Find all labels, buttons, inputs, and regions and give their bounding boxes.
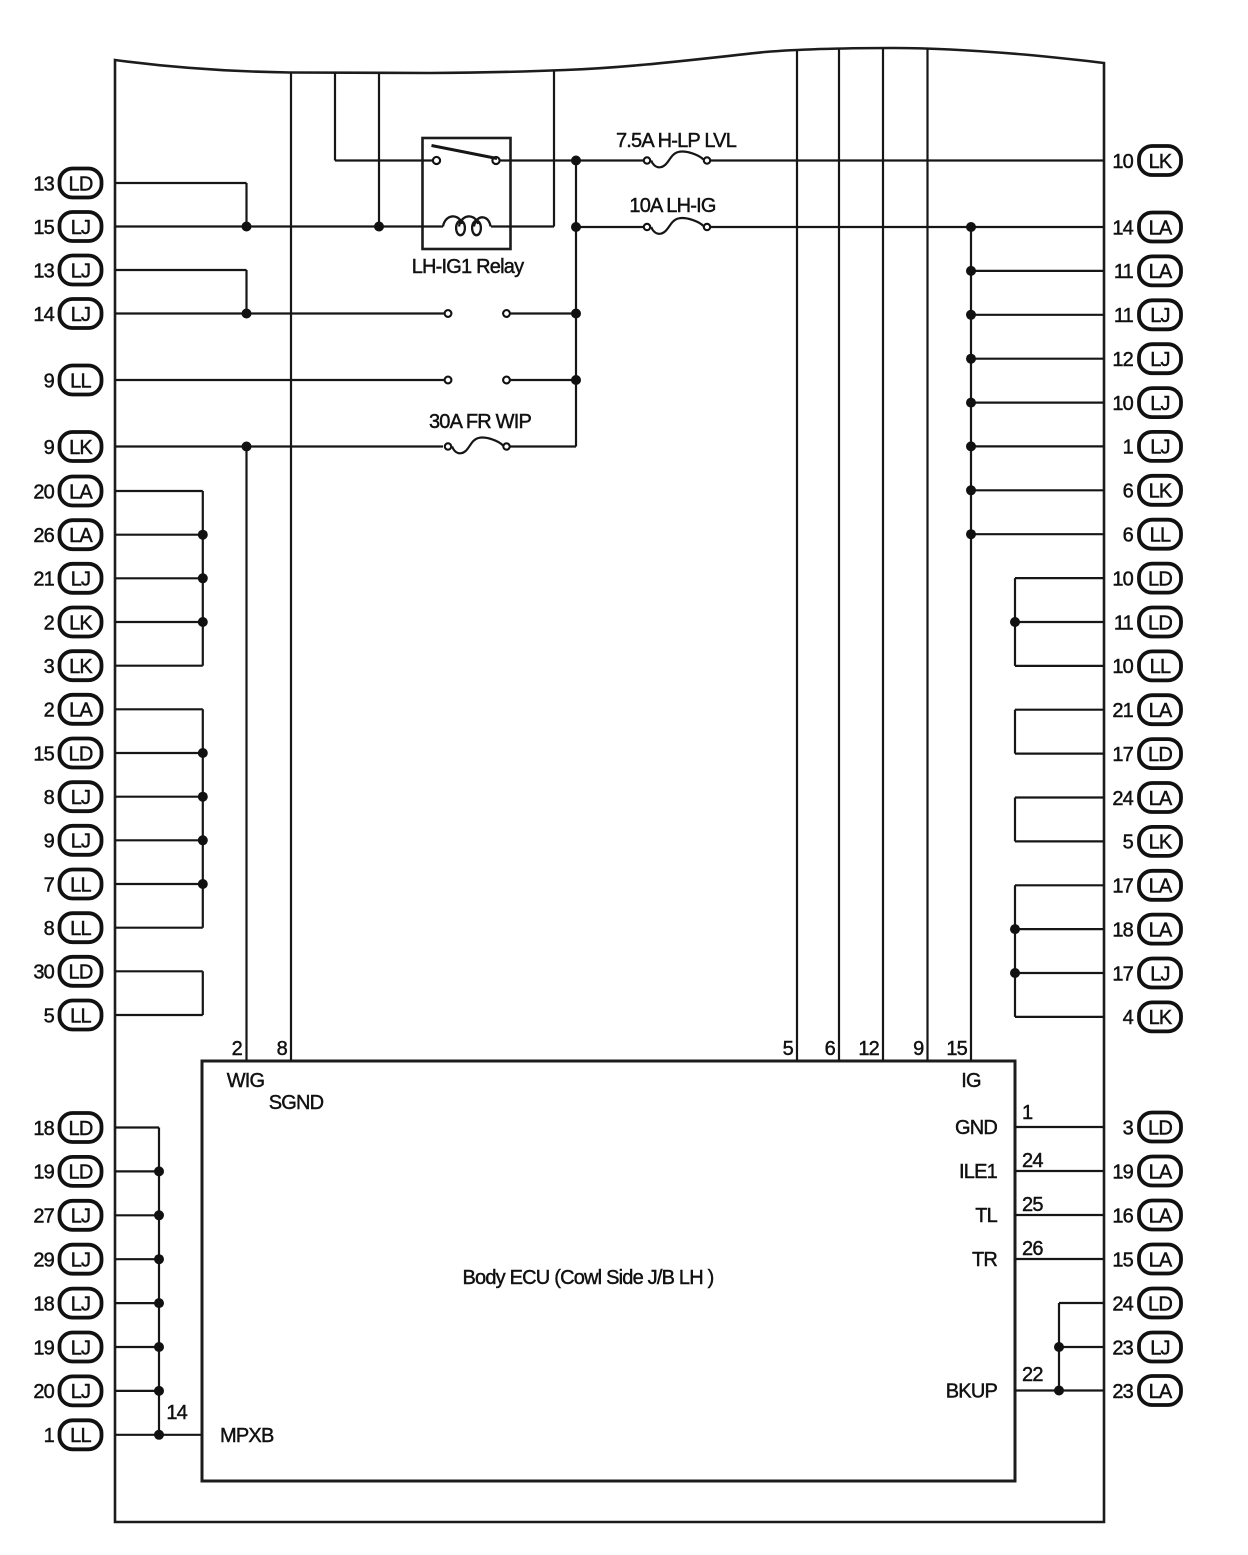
bus: left group B vertical: [202, 709, 204, 927]
svg-text:LA: LA: [1149, 700, 1173, 722]
svg-text:IG: IG: [961, 1070, 981, 1092]
svg-text:TR: TR: [972, 1249, 997, 1271]
connector 3 LD (right): [1123, 1113, 1181, 1142]
svg-text:27: 27: [33, 1206, 54, 1228]
connector 17 LJ (right): [1112, 959, 1181, 988]
svg-text:LH-IG1 Relay: LH-IG1 Relay: [412, 256, 524, 278]
wire: vertical to ECU pin 8: [290, 73, 292, 1062]
svg-text:22: 22: [1022, 1364, 1043, 1386]
connector 3 LK (left): [44, 651, 102, 680]
connector 19 LA (right): [1112, 1157, 1181, 1186]
svg-text:19: 19: [33, 1162, 54, 1184]
wire: ECU pin 1 GND to 3 LD: [1015, 1126, 1104, 1128]
connector 15 LJ (left): [33, 212, 101, 241]
wire: vertical to ECU pin 12: [882, 48, 884, 1061]
svg-text:LD: LD: [1148, 612, 1172, 634]
svg-text:6: 6: [1123, 525, 1134, 547]
svg-text:5: 5: [783, 1038, 794, 1060]
wire: switch rail y160: [335, 159, 432, 161]
wire: coil rail from 15 LJ: [115, 225, 443, 227]
svg-text:LA: LA: [1149, 1249, 1173, 1271]
wire: link 13 LD to 15 LJ: [245, 183, 247, 227]
connector 10 LD (right): [1112, 564, 1181, 593]
svg-text:LA: LA: [69, 525, 93, 547]
svg-text:8: 8: [44, 787, 55, 809]
connector 16 LA (right): [1112, 1201, 1181, 1230]
svg-text:GND: GND: [955, 1117, 997, 1139]
svg-text:LA: LA: [1149, 261, 1173, 283]
svg-text:LD: LD: [69, 1118, 93, 1140]
svg-text:LL: LL: [70, 370, 91, 392]
relay switch lever: [432, 146, 498, 159]
connector 18 LD (left): [33, 1113, 101, 1142]
wire: link 13 LJ to 14 LJ: [245, 270, 247, 314]
connector 24 LD (right): [1112, 1289, 1181, 1318]
svg-text:10: 10: [1112, 151, 1133, 173]
svg-text:17: 17: [1112, 963, 1133, 985]
svg-text:9: 9: [44, 831, 55, 853]
connector 19 LJ (left): [33, 1333, 101, 1362]
wire: 23 LJ row: [1059, 1346, 1104, 1348]
bus: right group G vertical: [1014, 885, 1016, 1017]
wire: ECU pin 24 ILE1 to 19 LA: [1015, 1170, 1104, 1172]
svg-text:1: 1: [44, 1425, 55, 1447]
connector 13 LJ (left): [33, 256, 101, 285]
svg-text:30A FR WIP: 30A FR WIP: [429, 411, 531, 433]
svg-text:LJ: LJ: [71, 304, 91, 326]
svg-text:25: 25: [1022, 1194, 1043, 1216]
svg-text:LD: LD: [69, 173, 93, 195]
svg-text:23: 23: [1112, 1381, 1133, 1403]
svg-text:LD: LD: [69, 1162, 93, 1184]
svg-text:24: 24: [1112, 788, 1133, 810]
bus: right group E vertical: [1014, 710, 1016, 754]
svg-text:LJ: LJ: [71, 569, 91, 591]
svg-text:1: 1: [1123, 437, 1134, 459]
wire: vertical feed to relay switch: [334, 73, 336, 161]
svg-text:10: 10: [1112, 393, 1133, 415]
connector 5 LL (left): [44, 1001, 102, 1030]
svg-text:LA: LA: [1149, 1161, 1173, 1183]
svg-text:4: 4: [1123, 1007, 1134, 1029]
svg-text:5: 5: [44, 1005, 55, 1027]
svg-text:LD: LD: [69, 743, 93, 765]
connector 11 LD (right): [1114, 608, 1181, 637]
svg-text:LA: LA: [69, 481, 93, 503]
svg-text:1: 1: [1022, 1102, 1033, 1124]
wire: vertical feed to coil rail node: [378, 73, 380, 227]
connector 18 LJ (left): [33, 1289, 101, 1318]
svg-text:LK: LK: [69, 612, 93, 634]
junction dots group G: [1010, 924, 1020, 934]
svg-text:20: 20: [33, 481, 54, 503]
bus: right group F vertical: [1014, 798, 1016, 842]
svg-text:7.5A H-LP LVL: 7.5A H-LP LVL: [616, 130, 737, 152]
svg-text:LJ: LJ: [1150, 349, 1170, 371]
svg-text:LJ: LJ: [1150, 437, 1170, 459]
svg-text:LL: LL: [70, 1425, 91, 1447]
svg-text:2: 2: [44, 700, 55, 722]
svg-text:20: 20: [33, 1381, 54, 1403]
bus: left bottom vertical: [158, 1128, 160, 1435]
svg-text:LJ: LJ: [71, 1381, 91, 1403]
connector 2 LK (left): [44, 608, 102, 637]
svg-text:LK: LK: [69, 656, 93, 678]
connector 9 LK (left): [44, 432, 102, 461]
connector 29 LJ (left): [33, 1245, 101, 1274]
svg-text:LJ: LJ: [1150, 1337, 1170, 1359]
junction dots on column x246: [242, 222, 252, 232]
svg-text:23: 23: [1112, 1337, 1133, 1359]
svg-text:LA: LA: [1149, 217, 1173, 239]
fuse F3 30A FR WIP: [445, 443, 451, 449]
svg-text:11: 11: [1114, 612, 1134, 634]
svg-text:15: 15: [33, 217, 54, 239]
svg-text:LA: LA: [69, 700, 93, 722]
svg-text:LA: LA: [1149, 788, 1173, 810]
svg-text:9: 9: [913, 1038, 924, 1060]
wire 9 LL row with connector contacts: [115, 379, 444, 381]
svg-text:9: 9: [44, 437, 55, 459]
svg-text:3: 3: [1123, 1117, 1134, 1139]
svg-text:24: 24: [1022, 1150, 1043, 1172]
relay coil: [443, 216, 462, 226]
wire 14 LJ row with connector contacts: [115, 312, 444, 314]
wire: 7.5A fuse row to 10 LK: [711, 159, 1104, 161]
svg-text:18: 18: [33, 1118, 54, 1140]
wire 13 LJ row: [115, 269, 247, 271]
wire: bus vertical to ECU pin 15: [970, 227, 972, 1061]
ECU U1 Body ECU (Cowl Side J/B LH) box: [202, 1061, 1015, 1481]
svg-text:3: 3: [44, 656, 55, 678]
connector 6 LK (right): [1123, 476, 1181, 505]
svg-text:15: 15: [1112, 1249, 1133, 1271]
svg-text:LJ: LJ: [71, 831, 91, 853]
svg-text:TL: TL: [975, 1205, 997, 1227]
wire: ECU pin 26 TR to 15 LA: [1015, 1258, 1104, 1260]
connector 21 LA (right): [1112, 695, 1181, 724]
connector 23 LJ (right): [1112, 1333, 1181, 1362]
svg-text:LL: LL: [1150, 656, 1171, 678]
svg-text:LJ: LJ: [71, 787, 91, 809]
wire: vertical to ECU pin 6: [838, 49, 840, 1061]
connector 7 LL (left): [44, 870, 102, 899]
svg-text:13: 13: [33, 173, 54, 195]
connector 12 LJ (right): [1112, 344, 1181, 373]
svg-text:LJ: LJ: [71, 1206, 91, 1228]
svg-text:30: 30: [33, 962, 54, 984]
svg-text:9: 9: [44, 370, 55, 392]
svg-text:8: 8: [277, 1038, 288, 1060]
svg-text:18: 18: [1112, 919, 1133, 941]
svg-text:21: 21: [33, 569, 54, 591]
svg-text:7: 7: [44, 874, 55, 896]
connector 17 LD (right): [1112, 739, 1181, 768]
connector 18 LA (right): [1112, 915, 1181, 944]
svg-text:17: 17: [1112, 744, 1133, 766]
svg-text:LJ: LJ: [1150, 963, 1170, 985]
svg-text:SGND: SGND: [269, 1092, 324, 1114]
wires: left group 30 LD - 5 LL: [115, 970, 203, 972]
connector 27 LJ (left): [33, 1201, 101, 1230]
svg-text:LA: LA: [1149, 919, 1173, 941]
svg-text:11: 11: [1114, 261, 1134, 283]
connector 30 LD (left): [33, 957, 101, 986]
connector 8 LJ (left): [44, 782, 102, 811]
junction dot coil rail x379: [374, 222, 384, 232]
svg-text:LK: LK: [1149, 1007, 1173, 1029]
svg-text:LA: LA: [1149, 1205, 1173, 1227]
connector 9 LL (left): [44, 366, 102, 395]
svg-text:MPXB: MPXB: [220, 1425, 274, 1447]
svg-text:LJ: LJ: [71, 217, 91, 239]
connector 13 LD (left): [33, 169, 101, 198]
connector 9 LJ (left): [44, 826, 102, 855]
junction dots group B: [198, 748, 208, 758]
svg-text:LJ: LJ: [71, 1250, 91, 1272]
connector 5 LK (right): [1123, 827, 1181, 856]
svg-text:LL: LL: [70, 918, 91, 940]
svg-text:10: 10: [1112, 656, 1133, 678]
wire 9 LK row: [115, 445, 443, 447]
connector 17 LA (right): [1112, 871, 1181, 900]
svg-text:LK: LK: [1149, 832, 1173, 854]
bus: left group A vertical: [202, 491, 204, 666]
junction dots group A: [198, 530, 208, 540]
svg-text:12: 12: [858, 1038, 879, 1060]
svg-text:6: 6: [1123, 481, 1134, 503]
svg-text:19: 19: [1112, 1161, 1133, 1183]
svg-text:LD: LD: [1148, 1117, 1172, 1139]
svg-text:16: 16: [1112, 1205, 1133, 1227]
svg-text:19: 19: [33, 1337, 54, 1359]
fuse F2 10A LH-IG: [644, 224, 650, 230]
wire: ECU pin 25 TL to 16 LA: [1015, 1214, 1104, 1216]
bus: right group D vertical: [1014, 578, 1016, 666]
wire: vertical link switch rail to lower contact rows: [575, 161, 577, 447]
junction dot group D: [1010, 617, 1020, 627]
svg-text:LJ: LJ: [71, 260, 91, 282]
svg-text:18: 18: [33, 1293, 54, 1315]
bus: left group C vertical: [202, 971, 204, 1015]
svg-text:LD: LD: [1148, 744, 1172, 766]
svg-text:15: 15: [946, 1038, 967, 1060]
connector 10 LK (right): [1112, 146, 1181, 175]
svg-text:LJ: LJ: [1150, 305, 1170, 327]
wire: vertical to ECU pin 2 from 9 LK row: [245, 447, 247, 1062]
svg-text:Body ECU (Cowl Side J/B LH ): Body ECU (Cowl Side J/B LH ): [462, 1267, 713, 1289]
wire: 24 LD row: [1059, 1302, 1104, 1304]
junction dots pin15 bus: [966, 222, 976, 232]
connector 10 LJ (right): [1112, 388, 1181, 417]
connector 19 LD (left): [33, 1157, 101, 1186]
connector 11 LA (right): [1114, 256, 1181, 285]
junction dots BKUP branch: [1054, 1342, 1064, 1352]
svg-text:26: 26: [33, 525, 54, 547]
svg-text:17: 17: [1112, 876, 1133, 898]
svg-text:8: 8: [44, 918, 55, 940]
svg-text:LD: LD: [1148, 568, 1172, 590]
wires: left group 2 LA - 8 LL: [115, 708, 203, 710]
svg-text:12: 12: [1112, 349, 1133, 371]
connector 6 LL (right): [1123, 520, 1181, 549]
svg-text:24: 24: [1112, 1293, 1133, 1315]
svg-text:LJ: LJ: [71, 1293, 91, 1315]
svg-text:LA: LA: [1149, 876, 1173, 898]
wire: vertical to ECU pin 9: [926, 48, 928, 1061]
svg-text:LL: LL: [70, 874, 91, 896]
relay LH-IG1 Relay box: [423, 138, 511, 249]
svg-text:6: 6: [825, 1038, 836, 1060]
svg-text:LD: LD: [1148, 1293, 1172, 1315]
svg-text:LA: LA: [1149, 1381, 1173, 1403]
connector 4 LK (right): [1123, 1002, 1181, 1031]
wire: vertical feed to relay coil right: [553, 70, 555, 226]
connector 11 LJ (right): [1114, 300, 1181, 329]
svg-text:14: 14: [166, 1402, 187, 1424]
svg-text:LJ: LJ: [71, 1337, 91, 1359]
wire: vertical to ECU pin 5: [796, 51, 798, 1062]
svg-text:BKUP: BKUP: [946, 1381, 998, 1403]
svg-text:10: 10: [1112, 568, 1133, 590]
connector 1 LL (left): [44, 1420, 102, 1449]
wires: right rows 11 LA - 6 LL from pin15 bus: [971, 270, 1104, 272]
wires: right group 10 LD - 10 LL: [1015, 577, 1104, 579]
junction dots on column x576: [571, 156, 581, 166]
connector 8 LL (left): [44, 913, 102, 942]
svg-text:5: 5: [1123, 832, 1134, 854]
wires: right group 24 LA / 5 LK: [1015, 796, 1104, 798]
connector 24 LA (right): [1112, 783, 1181, 812]
svg-text:26: 26: [1022, 1238, 1043, 1260]
svg-text:ILE1: ILE1: [959, 1161, 998, 1183]
svg-text:WIG: WIG: [227, 1070, 265, 1092]
connector 2 LA (left): [44, 695, 102, 724]
wires: left group 20 LA - 3 LK: [115, 490, 203, 492]
wire: 10A fuse row to 14 LA: [711, 226, 1104, 228]
svg-text:2: 2: [44, 612, 55, 634]
connector 1 LJ (right): [1123, 432, 1181, 461]
connector 20 LA (left): [33, 477, 101, 506]
svg-text:LD: LD: [69, 962, 93, 984]
svg-text:LK: LK: [1149, 151, 1173, 173]
connector 14 LA (right): [1112, 213, 1181, 242]
wire: 10A fuse row segment: [576, 226, 643, 228]
connector 15 LA (right): [1112, 1245, 1181, 1274]
wires: right group 17 LA - 4 LK: [1015, 884, 1104, 886]
svg-text:10A LH-IG: 10A LH-IG: [629, 195, 715, 217]
relay switch contacts: [433, 157, 440, 164]
svg-text:LJ: LJ: [1150, 393, 1170, 415]
connector 21 LJ (left): [33, 564, 101, 593]
svg-text:LK: LK: [1149, 481, 1173, 503]
wires: left bottom group 18 LD - 20 LJ: [115, 1126, 159, 1128]
junction dots left bottom bus: [154, 1166, 164, 1176]
svg-text:2: 2: [232, 1038, 243, 1060]
wires: right group 21 LA / 17 LD: [1015, 709, 1104, 711]
wire 1 LL row to ECU pin 14 MPXB: [115, 1434, 202, 1436]
svg-text:21: 21: [1112, 700, 1133, 722]
svg-text:14: 14: [33, 304, 54, 326]
svg-text:LK: LK: [69, 437, 93, 459]
connector 14 LJ (left): [33, 299, 101, 328]
svg-text:15: 15: [33, 743, 54, 765]
svg-text:11: 11: [1114, 305, 1134, 327]
wire: ECU pin 22 BKUP to 23 LA: [1015, 1389, 1104, 1391]
connector 15 LD (left): [33, 739, 101, 768]
connector 26 LA (left): [33, 520, 101, 549]
svg-text:29: 29: [33, 1250, 54, 1272]
bus: BKUP branch vertical: [1058, 1303, 1060, 1391]
svg-text:13: 13: [33, 260, 54, 282]
connector 20 LJ (left): [33, 1376, 101, 1405]
svg-text:LL: LL: [70, 1005, 91, 1027]
svg-text:14: 14: [1112, 217, 1133, 239]
connector 23 LA (right): [1112, 1376, 1181, 1405]
wire 13 LD row: [115, 182, 247, 184]
connector 10 LL (right): [1112, 651, 1181, 680]
outer border frame of junction block: [115, 48, 1104, 1522]
svg-text:LL: LL: [1150, 525, 1171, 547]
fuse F1 7.5A H-LP LVL: [644, 157, 650, 163]
